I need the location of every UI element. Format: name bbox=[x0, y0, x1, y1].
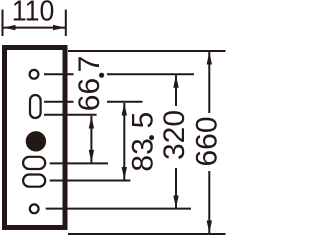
svg-text:66: 66 bbox=[73, 78, 106, 111]
svg-text:7: 7 bbox=[73, 56, 106, 73]
svg-text:110: 110 bbox=[12, 0, 55, 27]
svg-text:320: 320 bbox=[158, 110, 191, 160]
svg-text:83: 83 bbox=[127, 138, 160, 171]
svg-text:5: 5 bbox=[127, 112, 160, 129]
svg-text:660: 660 bbox=[191, 116, 224, 166]
